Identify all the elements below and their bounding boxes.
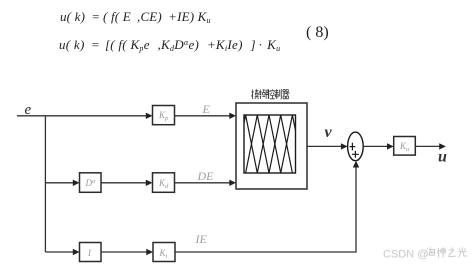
char zhi [275,89,281,99]
block Kp [153,106,175,125]
wire branch to Da [45,180,79,186]
watermark CSDN [383,249,428,261]
svg-text:( 8): ( 8) [306,24,329,41]
wire summing junction to Ku [363,143,394,149]
char shen [437,247,445,257]
char hai [426,247,435,256]
wire branch to I [45,249,79,255]
equation line 1 [60,9,211,25]
svg-text:CSDN @: CSDN @ [383,249,428,261]
char hu [259,89,269,99]
fuzzy controller outer block [236,103,307,189]
char kong [267,89,275,99]
wire Da to Kd [101,180,153,186]
svg-text:u( k) = ( f( E ,CE) +IE) Ku: u( k) = ( f( E ,CE) +IE) Ku [60,9,211,25]
svg-text:DE: DE [197,169,215,183]
char mo [251,89,258,99]
node DE label [197,169,215,183]
equation number (8) [306,24,329,41]
svg-text:u( k) = [( f( Kpe ,KdDαe): u( k) = [( f( Kpe ,KdDαe) +KiIe) ] · Ku [59,37,280,53]
char guang [458,247,466,257]
node E label [202,102,211,116]
wire Kd to fuzzy controller [175,180,237,186]
wire fuzzy controller to summing junction [307,143,348,149]
node e [25,102,32,118]
block Da [80,173,102,193]
char qi [283,90,290,99]
svg-text:v: v [325,124,333,141]
svg-text:E: E [202,102,211,116]
block Ku [394,137,416,156]
fuzzy controller inner box [244,115,296,173]
wire I to Ki [101,249,153,255]
membership function triangles [244,115,296,173]
equation line 2 [59,37,280,53]
svg-text:IE: IE [195,232,208,246]
node v label [325,124,333,141]
wire Kp to fuzzy controller [175,113,237,119]
node IE label [195,232,208,246]
summing junction [348,132,364,161]
node u label [438,149,447,166]
block Ki [153,243,175,262]
wire trunk vertical [44,116,46,252]
wire Ki to summing junction [175,161,359,252]
char zhi [448,248,455,257]
block I [80,243,102,262]
fuzzy controller label (mo hu kong zhi qi) drawn strokes [251,89,289,99]
wire e input horizontal [17,113,153,119]
watermark hanzi hai shen zhi guang drawn strokes [426,247,466,257]
svg-text:u: u [438,149,447,166]
wire output u [415,143,446,149]
block Kd [153,173,175,193]
